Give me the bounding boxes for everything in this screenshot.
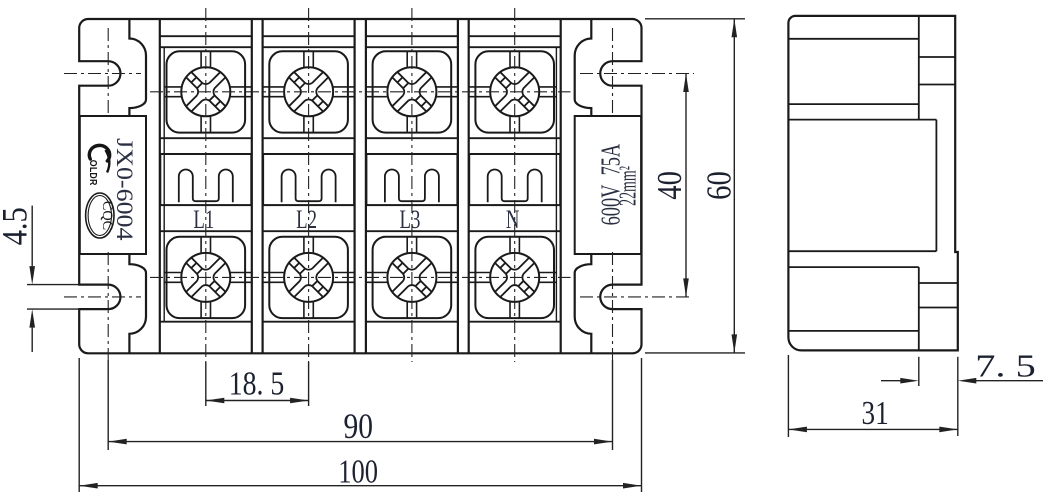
- svg-text:60: 60: [699, 171, 738, 200]
- ear centerline horizontal bottom-right (40 dim extension): [580, 296, 692, 298]
- mounting ear contour top-right: [575, 19, 592, 116]
- terminal cell N: middle clamp block: [469, 154, 560, 205]
- terminal cell L3: bottom screw: [387, 253, 436, 302]
- side view: lower horizontal line: [788, 330, 918, 332]
- housing left wall inner face: [163, 47, 165, 322]
- side view: upper horizontal line: [788, 38, 918, 40]
- cell wall pair 1: [251, 19, 253, 353]
- row centerline bottom screws: [150, 276, 571, 278]
- ear centerline horizontal bottom-left: [64, 296, 141, 298]
- terminal cell L2: middle clamp block: [263, 154, 354, 205]
- terminal cell L3: top terminal opening: [373, 51, 452, 132]
- terminal cell N: top screw: [490, 67, 539, 116]
- terminal cell L2: block divider lines: [263, 137, 355, 139]
- dimension 31 extension line left: [787, 355, 789, 437]
- terminal cell L2: bottom wire channel: [303, 237, 305, 253]
- terminal cell N: top terminal opening: [475, 51, 554, 132]
- terminal cell L2: bottom terminal opening: [269, 237, 348, 318]
- terminal cell L3: bottom terminal opening: [373, 237, 452, 318]
- side view: fin step lines lower: [919, 282, 958, 284]
- side view: fin left edge upper: [918, 16, 920, 120]
- terminal cell L1: top screw: [181, 67, 230, 116]
- svg-text:L2: L2: [296, 205, 317, 234]
- terminal cell N: bottom wire channel: [509, 237, 511, 253]
- terminal cell L1: top clamp plate lines: [164, 86, 181, 88]
- dimension 60 line and arrows: [733, 19, 735, 353]
- terminal cell L1: vertical centerline: [205, 8, 207, 362]
- terminal cell N: bottom screw: [490, 253, 539, 302]
- svg-text:40: 40: [649, 171, 688, 200]
- cell wall left outer: [159, 19, 161, 353]
- terminal cell L2: top screw: [284, 67, 333, 116]
- left label plate: [80, 116, 146, 254]
- terminal cell N: vertical centerline: [514, 8, 516, 362]
- terminal cell L1: lower shelf line: [160, 321, 252, 323]
- terminal cell L3: bottom clamp plate lines: [366, 272, 388, 274]
- terminal cell L2: bottom screw: [284, 253, 333, 302]
- side view: mid-section right edge: [935, 120, 937, 252]
- terminal cell L1: bottom screw: [181, 253, 230, 302]
- side view: lower shelf lines: [788, 250, 936, 252]
- svg-text:90: 90: [343, 407, 373, 446]
- svg-text:100: 100: [338, 453, 378, 491]
- svg-text:18. 5: 18. 5: [229, 365, 285, 402]
- terminal cell L2: top terminal opening: [269, 51, 348, 132]
- mounting ear contour bottom-left: [129, 254, 146, 353]
- terminal cell N: lower shelf line: [469, 321, 561, 323]
- left plate CQC oval logo: [86, 193, 114, 238]
- terminal cell N: top clamp plate lines: [469, 86, 491, 88]
- dimension 90 line and arrows: [108, 441, 612, 443]
- dimension 60 extension lines: [645, 18, 745, 20]
- terminal cell N: bottom terminal opening: [475, 237, 554, 318]
- front view: terminal block body outline with four open mounting slots: [79, 19, 641, 353]
- dimension 4.5 line and arrows: [31, 206, 33, 267]
- terminal cell L1: bottom terminal opening: [167, 237, 246, 318]
- side view: body profile outline: [788, 16, 957, 351]
- mounting ear contour top-left: [129, 19, 146, 116]
- terminal cell L1: block divider lines: [160, 137, 252, 139]
- terminal cell N: upper shelf lines: [469, 35, 561, 37]
- row centerline top screws: [150, 91, 571, 93]
- mounting ear contour bottom-right: [575, 254, 592, 353]
- ear centerline horizontal top-left: [64, 73, 141, 75]
- ear centerline vertical top-left: [107, 28, 109, 115]
- terminal cell N: top wire channel: [509, 51, 511, 67]
- terminal cell L3: lower shelf line: [366, 321, 458, 323]
- svg-text:L3: L3: [399, 205, 420, 234]
- svg-text:7. 5: 7. 5: [975, 348, 1035, 383]
- svg-text:22mm²: 22mm²: [616, 166, 642, 206]
- dimension 4.5 extension lines: [27, 284, 80, 286]
- terminal cell L1: top terminal opening: [167, 51, 246, 132]
- dimension 7.5 line and arrows: [881, 380, 901, 382]
- side view: fin step lines upper: [919, 56, 955, 58]
- dimension 7.5 extension lines: [918, 357, 920, 386]
- dimension 31 line and arrows: [788, 428, 957, 430]
- terminal cell L3: vertical centerline: [411, 8, 413, 362]
- terminal cell L2: vertical centerline: [308, 8, 310, 362]
- terminal cell L2: bottom clamp plate lines: [263, 272, 285, 274]
- terminal cell L3: block divider lines: [366, 137, 458, 139]
- terminal cell L1: bottom wire channel: [200, 237, 202, 253]
- cell wall right outer: [560, 19, 562, 353]
- dimension 100 line and arrows: [79, 485, 641, 487]
- dimension 100 extension lines: [78, 358, 80, 492]
- dimension 40 line and arrows: [685, 74, 687, 297]
- terminal cell L3: upper shelf lines: [366, 35, 458, 37]
- terminal cell L3: top clamp plate lines: [366, 86, 388, 88]
- terminal cell L2: top wire channel: [303, 51, 305, 67]
- terminal cell N: bottom clamp plate lines: [469, 272, 491, 274]
- terminal cell L3: middle clamp block: [366, 154, 457, 205]
- ear centerline vertical bottom-right + 90 dim extension: [612, 252, 614, 360]
- dimension 18.5 line and arrows: [206, 400, 309, 402]
- cell wall pair 3: [457, 19, 459, 353]
- svg-text:CQC: CQC: [99, 201, 115, 230]
- terminal cell L2: clamp spring fingers: [282, 170, 336, 203]
- svg-text:31: 31: [862, 394, 889, 432]
- housing right wall inner face: [555, 47, 557, 322]
- left plate GOLDR logo: [88, 145, 110, 185]
- ear centerline vertical bottom-left + 90 dim extension: [107, 252, 109, 360]
- svg-text:N: N: [506, 205, 520, 234]
- svg-text:L1: L1: [193, 205, 214, 234]
- terminal cell L1: upper shelf lines: [160, 35, 252, 37]
- terminal cell L2: upper shelf lines: [263, 35, 355, 37]
- terminal cell N: block divider lines: [469, 137, 561, 139]
- terminal cell L3: top wire channel: [406, 51, 408, 67]
- terminal cell L1: middle clamp block: [160, 154, 251, 205]
- terminal cell L2: lower shelf line: [263, 321, 355, 323]
- terminal cell L1: top wire channel: [200, 51, 202, 67]
- side view: upper shelf lines: [788, 103, 918, 105]
- cell wall pair 2: [354, 19, 356, 353]
- svg-text:4.5: 4.5: [0, 207, 35, 245]
- terminal cell L3: clamp spring fingers: [385, 170, 439, 203]
- right label plate: [575, 116, 641, 254]
- terminal cell L3: bottom wire channel: [406, 237, 408, 253]
- svg-text:OLDR: OLDR: [88, 160, 99, 186]
- terminal cell L1: clamp spring fingers: [179, 170, 233, 203]
- side view: fin left edge lower: [918, 267, 920, 350]
- terminal cell N: clamp spring fingers: [488, 170, 542, 203]
- ear centerline horizontal top-right (40 dim extension): [580, 73, 694, 75]
- terminal cell L3: top screw: [387, 67, 436, 116]
- terminal cell L2: top clamp plate lines: [263, 86, 285, 88]
- ear centerline vertical top-right: [612, 28, 614, 115]
- terminal cell L1: bottom clamp plate lines: [164, 272, 181, 274]
